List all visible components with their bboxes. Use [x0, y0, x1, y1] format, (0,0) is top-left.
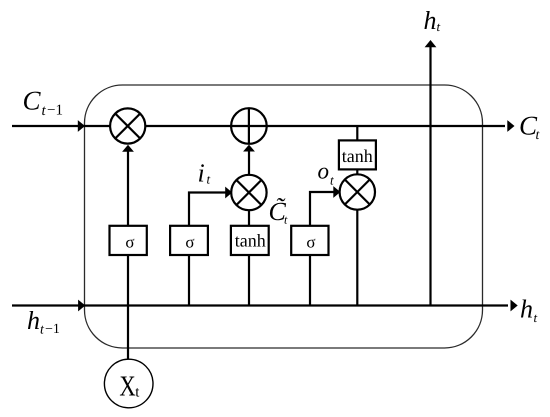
- svg-text:σ: σ: [185, 232, 194, 251]
- svg-text:tanh: tanh: [235, 231, 266, 251]
- svg-text:i: i: [198, 159, 205, 188]
- svg-text:o: o: [318, 159, 330, 184]
- svg-text:−1: −1: [45, 322, 60, 337]
- svg-text:σ: σ: [125, 232, 134, 251]
- svg-text:X: X: [119, 371, 135, 403]
- svg-text:h: h: [27, 306, 40, 335]
- svg-text:t: t: [534, 310, 538, 325]
- svg-text:−1: −1: [47, 103, 63, 119]
- svg-text:h: h: [424, 6, 437, 35]
- svg-text:h: h: [520, 295, 533, 324]
- svg-text:σ: σ: [306, 232, 315, 251]
- svg-text:t: t: [207, 172, 211, 187]
- svg-text:tanh: tanh: [342, 146, 373, 166]
- svg-text:t: t: [330, 173, 334, 188]
- svg-text:t: t: [437, 19, 441, 34]
- svg-text:C: C: [23, 86, 42, 116]
